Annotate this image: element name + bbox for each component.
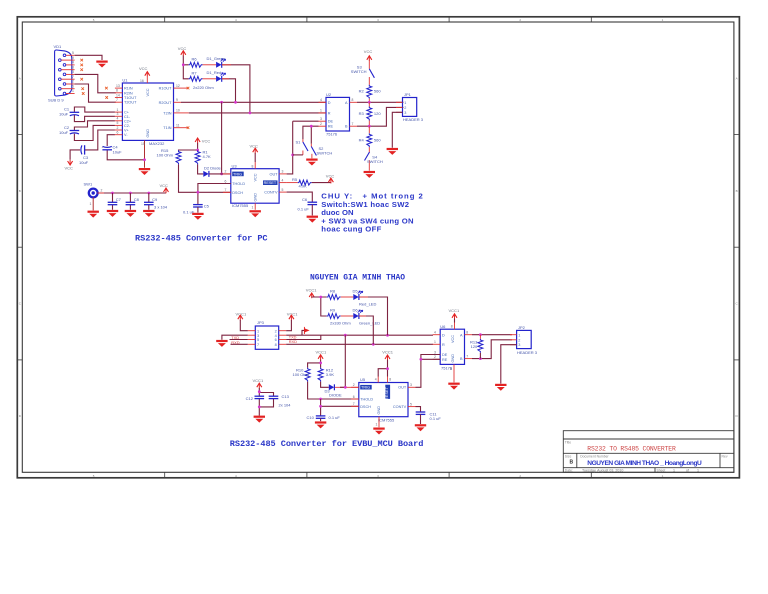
border zone tick marks left right xyxy=(17,135,739,360)
svg-text:1: 1 xyxy=(518,334,520,338)
svg-text:100 Ohm: 100 Ohm xyxy=(293,372,310,377)
wire VCC1 to U5 pins 4 8 xyxy=(378,360,387,377)
wire THOLD DSCH R15 C5 junction xyxy=(198,184,231,205)
svg-text:B: B xyxy=(345,125,348,129)
capacitor C1 xyxy=(70,112,80,115)
svg-text:VCC1: VCC1 xyxy=(382,350,393,355)
svg-text:SW1: SW1 xyxy=(84,181,93,186)
svg-text:VCC1: VCC1 xyxy=(449,308,460,313)
wire R8 to D5 xyxy=(341,296,354,298)
svg-text:2: 2 xyxy=(404,106,406,110)
svg-text:D2 Diode: D2 Diode xyxy=(204,166,221,171)
wire D5 to TXD line vertical xyxy=(359,297,387,335)
U1 bottom GND pin stub xyxy=(144,140,146,167)
svg-text:C7: C7 xyxy=(116,197,122,202)
U6 pin names xyxy=(442,333,463,362)
LED D5 Red_LED xyxy=(353,291,363,300)
wire RXD jog to TXD line xyxy=(286,335,321,339)
svg-text:VCC: VCC xyxy=(451,335,455,343)
U3 pin names xyxy=(232,173,278,202)
svg-text:3.9K: 3.9K xyxy=(326,372,335,377)
wire D3 to TRIG junction xyxy=(335,386,359,388)
connector VD1 DB9 body xyxy=(48,44,72,103)
svg-text:R: R xyxy=(442,343,445,347)
wire B line jog to JP2 pin2 xyxy=(472,340,512,359)
VCC above U3 xyxy=(253,148,258,153)
header JP3 box xyxy=(255,320,278,350)
wire R7 to D1_Red xyxy=(203,78,217,80)
svg-text:U2: U2 xyxy=(326,92,332,97)
svg-text:6: 6 xyxy=(117,131,119,135)
svg-text:560: 560 xyxy=(374,138,381,143)
svg-text:120: 120 xyxy=(374,111,381,116)
timer U5 ICM7555 box xyxy=(359,377,408,422)
LED D6 Green_LED xyxy=(353,310,363,319)
capacitor C9 xyxy=(147,192,150,195)
svg-text:D6: D6 xyxy=(353,307,359,312)
resistor R12 xyxy=(318,368,323,382)
svg-text:4.9K: 4.9K xyxy=(299,183,308,188)
svg-text:12: 12 xyxy=(176,84,180,88)
svg-text:Size: Size xyxy=(565,454,572,458)
wire net JP3 pin8 to U6 R xyxy=(286,343,433,345)
svg-text:SWITCH: SWITCH xyxy=(317,151,333,156)
wire vertical D line to TRIG xyxy=(221,102,223,174)
svg-text:U1: U1 xyxy=(122,78,128,83)
note text CHU Y xyxy=(321,192,423,234)
svg-text:of: of xyxy=(686,469,689,473)
svg-text:8: 8 xyxy=(72,65,74,69)
wire THOLD junction down through DSCH to C10 xyxy=(321,399,359,416)
sheet inner border frame xyxy=(22,22,734,472)
svg-text:OUT: OUT xyxy=(398,386,407,390)
U5 pin stubs xyxy=(351,377,415,428)
U3 pin numbers xyxy=(225,165,284,210)
svg-text:GND: GND xyxy=(254,193,258,202)
svg-text:3: 3 xyxy=(282,170,284,174)
U2 pin stubs xyxy=(319,102,358,126)
svg-text:1: 1 xyxy=(376,423,378,427)
svg-text:CONTV: CONTV xyxy=(393,405,407,409)
svg-text:4: 4 xyxy=(117,117,119,121)
capacitor C10 xyxy=(316,416,326,418)
wire JP3 pin3 left to ground xyxy=(222,335,248,340)
wire net TXD to U6 D xyxy=(286,334,433,336)
capacitor C4 xyxy=(102,146,112,149)
svg-text:8: 8 xyxy=(352,98,354,102)
svg-text:DE: DE xyxy=(328,120,334,124)
LED D1_Red xyxy=(216,73,226,82)
wire VCC to R1 R15 tops xyxy=(179,143,198,151)
svg-text:C12: C12 xyxy=(246,396,254,401)
capacitor C2 loop wiring xyxy=(74,121,115,141)
svg-text:TRIG: TRIG xyxy=(233,172,242,176)
svg-text:T1OUT: T1OUT xyxy=(124,96,137,100)
header JP2 box xyxy=(517,325,538,355)
U5 TRIG inverted label xyxy=(360,385,372,390)
svg-text:5: 5 xyxy=(117,121,119,125)
svg-text:2: 2 xyxy=(353,383,355,387)
border zone labels xyxy=(19,18,739,478)
svg-text:8: 8 xyxy=(275,343,277,347)
VD1 no-connect marks xyxy=(80,59,83,62)
wire R5 to VCC xyxy=(312,182,331,184)
wire VCC to R6 R7 xyxy=(183,56,188,79)
svg-text:VCC: VCC xyxy=(254,173,258,181)
svg-text:ICM7555: ICM7555 xyxy=(378,417,395,422)
ground under JP2 xyxy=(495,384,506,391)
svg-text:5: 5 xyxy=(282,188,284,192)
capacitor C6 xyxy=(308,202,318,204)
JP1 pin stubs xyxy=(396,102,403,112)
title block outline xyxy=(563,431,734,473)
U1 top VCC pin stub xyxy=(146,77,148,83)
svg-text:D: D xyxy=(328,101,331,105)
wire R9 to D6 xyxy=(341,315,354,317)
wire RXD left xyxy=(230,339,248,341)
ground under U5 xyxy=(373,428,384,435)
U5 RESET inverted vertical label xyxy=(385,385,390,399)
svg-text:R6: R6 xyxy=(192,57,198,62)
svg-text:4: 4 xyxy=(375,377,377,381)
ground under C6 xyxy=(311,205,313,216)
title block small labels xyxy=(565,441,728,473)
resistor R3 xyxy=(367,107,372,121)
svg-text:VCC1: VCC1 xyxy=(253,378,264,383)
svg-text:3: 3 xyxy=(404,111,406,115)
svg-text:1: 1 xyxy=(673,469,675,473)
transceiver U6 75176 box xyxy=(440,324,464,370)
svg-text:R1OUT: R1OUT xyxy=(159,87,173,91)
svg-text:Date:: Date: xyxy=(565,469,573,473)
U6 pin stubs xyxy=(433,323,472,383)
ground under JP1 xyxy=(387,148,398,155)
svg-text:A: A xyxy=(460,333,463,337)
svg-text:R3: R3 xyxy=(359,111,365,116)
svg-text:D: D xyxy=(442,333,445,337)
svg-text:RS232-485 Converter for EVBU_M: RS232-485 Converter for EVBU_MCU Board xyxy=(230,439,424,449)
svg-text:7: 7 xyxy=(353,402,355,406)
svg-text:8: 8 xyxy=(389,377,391,381)
ground under C5 xyxy=(197,207,199,213)
svg-text:4.7K: 4.7K xyxy=(203,154,212,159)
U1 left pin stubs xyxy=(115,88,123,135)
svg-text:1: 1 xyxy=(434,340,436,344)
svg-text:R4: R4 xyxy=(359,138,365,143)
VCC above R6 R7 xyxy=(181,51,186,56)
svg-text:T2IN: T2IN xyxy=(163,111,171,115)
svg-text:10uF: 10uF xyxy=(113,149,123,154)
svg-text:Title: Title xyxy=(565,441,571,445)
svg-text:15: 15 xyxy=(141,142,145,146)
svg-text:3 x 104: 3 x 104 xyxy=(154,204,168,209)
U1 no-connect marks xyxy=(105,87,108,90)
ground under SW1 xyxy=(88,211,99,218)
svg-text:VCC1: VCC1 xyxy=(287,311,298,316)
svg-text:16: 16 xyxy=(140,79,144,83)
svg-text:HEADER 3: HEADER 3 xyxy=(517,350,538,355)
wire net R2OUT to U2 D xyxy=(181,101,326,103)
timer U3 ICM7555 box xyxy=(231,163,279,208)
svg-text:3: 3 xyxy=(117,112,119,116)
U5 pin numbers xyxy=(353,377,412,426)
svg-text:THOLD: THOLD xyxy=(360,397,373,401)
VD1 pin stubs xyxy=(61,55,74,93)
wire net T2IN to U2 R xyxy=(189,112,326,114)
svg-text:2x 104: 2x 104 xyxy=(279,403,292,408)
svg-text:B: B xyxy=(19,189,21,193)
svg-text:14: 14 xyxy=(116,93,120,97)
svg-text:6: 6 xyxy=(275,338,277,342)
capacitor C4 wiring xyxy=(107,135,144,160)
svg-text:VD1: VD1 xyxy=(54,44,63,49)
capacitor C3 xyxy=(81,145,85,154)
svg-text:10uF: 10uF xyxy=(79,160,89,165)
svg-text:5: 5 xyxy=(410,402,412,406)
svg-text:OUT: OUT xyxy=(269,173,278,177)
VD1 pin numbers xyxy=(72,51,74,93)
wire R1 bottom to D2 xyxy=(198,164,204,174)
svg-text:VCC: VCC xyxy=(139,66,148,71)
svg-text:2: 2 xyxy=(101,189,103,193)
svg-text:C13: C13 xyxy=(282,394,290,399)
svg-text:RE: RE xyxy=(442,358,448,362)
wire B line U2 to JP1 pin2 xyxy=(357,107,403,126)
resistor R6 xyxy=(189,62,203,67)
svg-text:0.1 uF: 0.1 uF xyxy=(430,416,442,421)
svg-text:8: 8 xyxy=(451,325,453,329)
svg-text:1: 1 xyxy=(90,202,92,206)
svg-text:R2OUT: R2OUT xyxy=(159,101,173,105)
svg-text:S1: S1 xyxy=(296,140,302,145)
switch S1 xyxy=(296,139,309,155)
svg-text:GND: GND xyxy=(377,406,381,415)
svg-text:Rev: Rev xyxy=(722,454,728,458)
U1 right pin stubs xyxy=(174,88,189,128)
ground under C12 C13 xyxy=(254,416,265,423)
svg-text:2: 2 xyxy=(72,80,74,84)
VCC symbol above U1 xyxy=(145,72,150,77)
svg-text:C5: C5 xyxy=(204,204,210,209)
svg-text:RESET: RESET xyxy=(385,386,389,400)
switch S3 xyxy=(351,61,375,85)
ground under U6 xyxy=(448,383,459,390)
svg-text:11: 11 xyxy=(176,124,180,128)
svg-text:2: 2 xyxy=(275,329,277,333)
svg-text:8: 8 xyxy=(466,331,468,335)
wire OUT up to DE vertical xyxy=(287,121,293,174)
svg-text:JP2: JP2 xyxy=(518,325,526,330)
JP2 pin stubs xyxy=(510,335,517,345)
svg-text:T1IN: T1IN xyxy=(163,126,171,130)
svg-text:100 Ohm: 100 Ohm xyxy=(157,152,174,157)
svg-text:2: 2 xyxy=(518,338,520,342)
VCC symbol below C3 rotated xyxy=(68,160,73,165)
svg-text:C2-: C2- xyxy=(124,124,131,128)
wire DE RE tie to OUT xyxy=(421,355,440,360)
wire R10 bottom to THOLD xyxy=(308,382,359,399)
U1 pin names xyxy=(124,87,172,138)
svg-text:4: 4 xyxy=(320,98,322,102)
wire OUT up to DE RE junction xyxy=(416,359,421,387)
svg-text:DSCH: DSCH xyxy=(232,191,243,195)
SW1 pin1 to ground xyxy=(92,197,94,210)
wire R15 bottom to DSCH xyxy=(179,164,231,192)
svg-text:2: 2 xyxy=(320,122,322,126)
wire R6 to D1_Green xyxy=(203,64,217,66)
svg-text:D1_Red: D1_Red xyxy=(207,70,222,75)
svg-text:C2+: C2+ xyxy=(124,119,132,123)
svg-text:NGUYEN GIA MINH THAO: NGUYEN GIA MINH THAO xyxy=(310,274,405,283)
svg-text:4: 4 xyxy=(434,331,436,335)
svg-text:3: 3 xyxy=(410,383,412,387)
svg-text:VCC1: VCC1 xyxy=(316,349,327,354)
svg-text:VCC: VCC xyxy=(364,49,373,54)
svg-text:R7: R7 xyxy=(192,71,198,76)
svg-text:SUB D 9: SUB D 9 xyxy=(48,98,64,103)
capacitor C11 xyxy=(416,412,426,414)
svg-text:VCC: VCC xyxy=(160,183,169,188)
svg-text:10uF: 10uF xyxy=(59,112,69,117)
svg-text:THOLD: THOLD xyxy=(232,182,245,186)
svg-text:DSCH: DSCH xyxy=(360,405,371,409)
ground under U3 xyxy=(250,210,261,217)
svg-text:B: B xyxy=(570,459,574,465)
svg-text:Document Number: Document Number xyxy=(580,454,609,458)
resistor R2 xyxy=(367,85,372,99)
svg-text:RS232 TO RS485 CONVERTER: RS232 TO RS485 CONVERTER xyxy=(587,446,676,453)
svg-text:SWITCH: SWITCH xyxy=(367,159,383,164)
svg-text:6: 6 xyxy=(225,179,227,183)
svg-text:3: 3 xyxy=(434,350,436,354)
resistor R5 xyxy=(298,180,312,185)
capacitor C2 xyxy=(70,131,80,134)
svg-text:R2: R2 xyxy=(359,89,365,94)
header JP1 box xyxy=(403,92,424,122)
U3 TRIG inverted label xyxy=(232,172,244,177)
svg-text:RE: RE xyxy=(328,125,334,129)
svg-text:U3: U3 xyxy=(232,163,238,168)
svg-text:R8: R8 xyxy=(330,288,336,293)
wire R13 bottom tie xyxy=(479,353,481,359)
svg-text:SWITCH: SWITCH xyxy=(351,69,367,74)
wire DE left and down to OUT vertical xyxy=(293,120,319,122)
border zone tick marks top xyxy=(165,17,592,22)
capacitor C8 xyxy=(129,192,132,195)
svg-text:U5: U5 xyxy=(360,377,366,382)
svg-text:2: 2 xyxy=(117,126,119,130)
U5 pin names xyxy=(360,386,407,415)
ground under S4 xyxy=(364,171,375,178)
wire vertical TXD line down to TRIG xyxy=(344,335,346,387)
svg-text:VCC: VCC xyxy=(65,165,74,170)
VCC above R1 R15 xyxy=(195,138,200,143)
ground under C11 xyxy=(420,414,422,424)
wire D1_Green to R line xyxy=(222,65,250,113)
JP3 pin stubs xyxy=(248,331,286,345)
switch S4 xyxy=(365,147,383,171)
capacitor C13 xyxy=(269,396,279,398)
svg-text:6: 6 xyxy=(353,395,355,399)
svg-text:8: 8 xyxy=(252,165,254,169)
wire CONTV to C6 xyxy=(287,192,313,202)
sheet outer border frame xyxy=(17,17,739,478)
svg-text:C10: C10 xyxy=(307,415,315,420)
svg-text:JP1: JP1 xyxy=(404,92,412,97)
U3 pin stubs xyxy=(223,162,287,210)
svg-text:1: 1 xyxy=(252,206,254,210)
svg-text:4: 4 xyxy=(282,178,284,182)
ground at JP3 pin3 wire xyxy=(216,340,227,347)
svg-text:13: 13 xyxy=(116,84,120,88)
SW1 pin2 wire to VCC rail xyxy=(98,192,167,194)
wire JP2 pin3 to ground xyxy=(501,345,517,384)
resistor R8 xyxy=(327,295,341,300)
svg-text:7: 7 xyxy=(225,188,227,192)
wire S1 bottom to OUT junction xyxy=(293,154,303,156)
ground under U1 xyxy=(139,168,150,175)
capacitor C1 loop wiring xyxy=(74,107,115,122)
svg-text:3: 3 xyxy=(320,117,322,121)
capacitor C5 xyxy=(193,205,203,207)
svg-text:U6: U6 xyxy=(440,324,446,329)
svg-text:7: 7 xyxy=(72,75,74,79)
svg-text:9: 9 xyxy=(72,56,74,60)
wire VD1 pin2 to U1 T2OUT xyxy=(75,84,116,102)
wire RESET to R5 xyxy=(287,182,298,184)
wire RE to S1 S2 tops xyxy=(303,126,319,144)
svg-text:0.1 uF: 0.1 uF xyxy=(329,415,341,420)
svg-text:120: 120 xyxy=(471,344,478,349)
wire CONTV to C11 xyxy=(416,407,421,412)
border zone tick marks bottom xyxy=(165,472,592,478)
svg-text:3: 3 xyxy=(72,70,74,74)
ground under C10 xyxy=(320,418,322,421)
svg-text:B: B xyxy=(736,189,738,193)
svg-text:GND: GND xyxy=(451,354,455,363)
svg-text:75176: 75176 xyxy=(326,132,338,137)
switch S2 xyxy=(311,144,332,159)
svg-text:1: 1 xyxy=(697,469,699,473)
svg-text:+: + xyxy=(102,146,104,150)
VCC above S3 xyxy=(367,56,372,61)
svg-text:R: R xyxy=(328,111,331,115)
resistor R4 xyxy=(367,133,372,147)
svg-text:4: 4 xyxy=(72,61,74,65)
svg-text:JP3: JP3 xyxy=(257,320,265,325)
U2 pin numbers xyxy=(320,98,354,126)
svg-text:B: B xyxy=(460,357,463,361)
resistor R13 xyxy=(478,339,483,353)
svg-text:2: 2 xyxy=(225,170,227,174)
svg-text:0.1 uF: 0.1 uF xyxy=(298,206,310,211)
svg-text:DE: DE xyxy=(442,353,448,357)
svg-text:R5: R5 xyxy=(292,177,298,182)
power arrow flag on TXD net xyxy=(302,330,304,335)
wire VD1 pin3 to U1 R2IN xyxy=(75,74,116,92)
ground at VD1 pin5 xyxy=(96,61,107,68)
svg-text:7: 7 xyxy=(257,343,259,347)
capacitor C7 xyxy=(111,192,114,195)
svg-text:CONTV: CONTV xyxy=(264,191,278,195)
svg-text:A: A xyxy=(19,77,21,81)
wire R12 to D3 xyxy=(321,382,329,388)
svg-text:5: 5 xyxy=(450,367,452,371)
capacitor C12 xyxy=(254,396,264,398)
resistor R9 xyxy=(327,314,341,319)
resistor R1 xyxy=(195,150,200,164)
U3 RESET inverted label xyxy=(263,180,278,185)
